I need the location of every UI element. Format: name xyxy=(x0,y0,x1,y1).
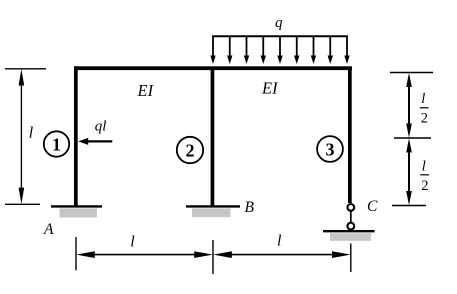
svg-text:A: A xyxy=(43,221,54,238)
svg-text:q: q xyxy=(275,15,283,31)
svg-text:2: 2 xyxy=(421,178,428,194)
svg-text:ql: ql xyxy=(95,118,107,134)
svg-text:l: l xyxy=(130,234,135,251)
svg-text:l: l xyxy=(422,158,426,174)
svg-text:l: l xyxy=(29,124,34,141)
svg-text:1: 1 xyxy=(52,135,61,155)
svg-text:C: C xyxy=(367,198,378,215)
svg-text:B: B xyxy=(245,199,255,216)
svg-text:3: 3 xyxy=(326,140,335,160)
svg-text:EI: EI xyxy=(137,81,155,100)
svg-text:2: 2 xyxy=(421,111,428,127)
svg-text:l: l xyxy=(421,91,425,107)
svg-text:EI: EI xyxy=(261,78,279,97)
svg-text:2: 2 xyxy=(186,141,195,161)
svg-text:l: l xyxy=(277,233,282,250)
